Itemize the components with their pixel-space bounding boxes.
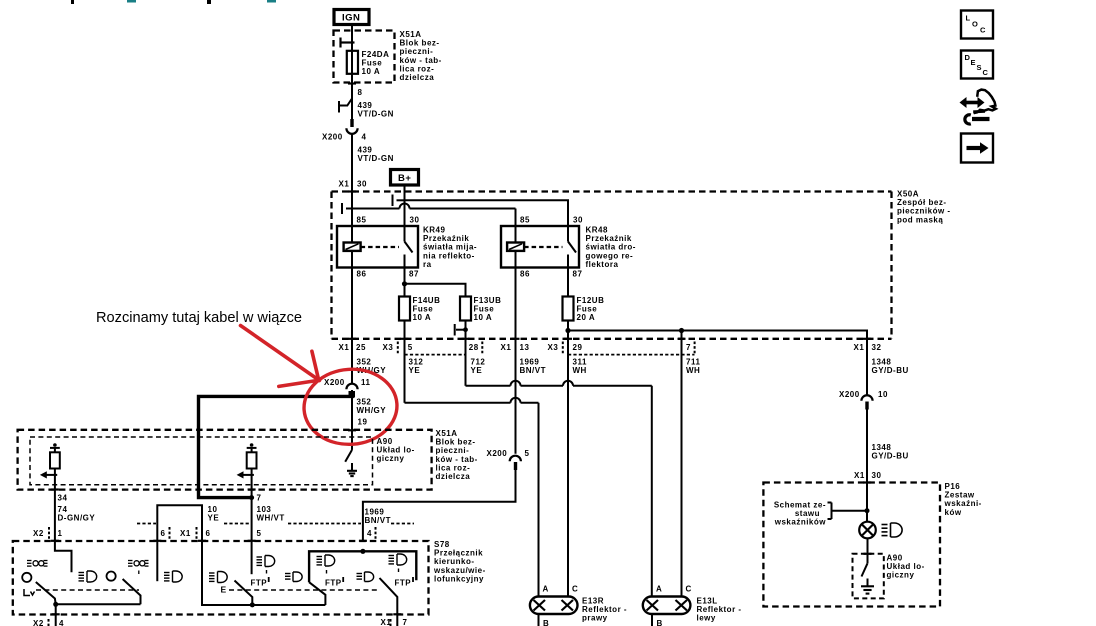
svg-text:O: O bbox=[972, 20, 978, 29]
svg-text:A: A bbox=[656, 585, 662, 594]
wire from F12UB down and right to pin 32 bbox=[567, 321, 569, 331]
svg-text:GY/D-BU: GY/D-BU bbox=[872, 452, 909, 461]
top edge cropped text fragments bbox=[71, 0, 276, 4]
splice hook on coil feed wire bbox=[342, 203, 352, 214]
off-position circle 1 bbox=[22, 573, 31, 582]
svg-text:87: 87 bbox=[573, 270, 583, 279]
arrow stub on fuse 1 bbox=[46, 474, 57, 476]
B+ branch wire to KR48 pin 30 bbox=[405, 200, 569, 226]
svg-text:29: 29 bbox=[573, 343, 583, 352]
headlamp icon middle bbox=[285, 572, 302, 582]
svg-text:4: 4 bbox=[59, 619, 64, 626]
svg-text:dzielcza: dzielcza bbox=[400, 73, 435, 82]
connector X200 pin 10 on wire 1348 bbox=[861, 395, 872, 401]
switch blade 1 bbox=[36, 582, 56, 604]
svg-text:YE: YE bbox=[409, 366, 421, 375]
S78 pin row dense dashed line bbox=[137, 523, 414, 525]
wire label 711 WH bbox=[686, 358, 700, 376]
svg-text:4: 4 bbox=[367, 529, 372, 538]
svg-text:86: 86 bbox=[357, 270, 367, 279]
svg-text:B: B bbox=[657, 619, 663, 626]
wire label 1348 GY/D-BU bbox=[872, 358, 909, 376]
svg-text:X3: X3 bbox=[383, 343, 394, 352]
logic module A90 inner dashed box bbox=[30, 437, 373, 485]
relay KR49 bbox=[337, 226, 418, 268]
wire 312 from F14UB down bbox=[404, 321, 406, 403]
branch to F13UB bbox=[405, 284, 466, 297]
svg-text:20 A: 20 A bbox=[577, 313, 596, 322]
off-position circle 2 bbox=[107, 572, 116, 581]
E13R label bbox=[582, 597, 627, 623]
wire from B+ down to KR49 pin 30 bbox=[404, 185, 406, 226]
svg-text:giczny: giczny bbox=[377, 454, 405, 463]
pin 34 tick and wire 74 down to S78 bbox=[51, 488, 59, 490]
svg-text:BN/VT: BN/VT bbox=[365, 516, 392, 525]
wire from lamp to A90 bbox=[867, 538, 869, 563]
switch blade 3 bbox=[235, 581, 253, 605]
S78 label bbox=[433, 540, 486, 583]
headlamp icon (E contact) bbox=[209, 572, 227, 583]
svg-text:30: 30 bbox=[573, 216, 583, 225]
high beam indicator lamp bbox=[859, 522, 876, 539]
multifunction switch S78 dashed box bbox=[13, 541, 429, 615]
svg-text:Rozcinamy tutaj kabel w wiązce: Rozcinamy tutaj kabel w wiązce bbox=[96, 310, 302, 326]
svg-text:10 A: 10 A bbox=[362, 67, 381, 76]
headlamp icon mid-right bbox=[357, 572, 374, 582]
svg-text:85: 85 bbox=[520, 216, 530, 225]
svg-text:C: C bbox=[983, 68, 989, 77]
svg-text:X2: X2 bbox=[33, 529, 44, 538]
svg-text:5: 5 bbox=[408, 343, 413, 352]
svg-text:S: S bbox=[977, 63, 983, 72]
svg-text:7: 7 bbox=[257, 494, 262, 503]
svg-text:FTP: FTP bbox=[251, 579, 268, 588]
fuse box X50A dashed outline bbox=[332, 192, 892, 339]
E13L pin B wire bbox=[651, 614, 653, 626]
relay KR48 bbox=[501, 226, 579, 268]
svg-text:C: C bbox=[572, 585, 578, 594]
switch to ground in A90 (wire 352) bbox=[345, 450, 352, 470]
svg-text:X1: X1 bbox=[854, 471, 865, 480]
bracket to cluster bbox=[828, 503, 868, 520]
svg-text:13: 13 bbox=[520, 343, 530, 352]
S78 internal: wire 74 jog to contact bbox=[55, 541, 72, 573]
wire label 311 WH bbox=[573, 358, 587, 376]
svg-text:X1: X1 bbox=[501, 343, 512, 352]
relay coil feed wire from 439 to KR48 pin 85 with hop bbox=[352, 204, 516, 227]
fuse element 2 in X51A (wire 103) bbox=[247, 448, 257, 541]
pin6 right leg down and common bar bbox=[202, 541, 325, 605]
distribution box X51A bottom dashed outline bbox=[18, 430, 432, 490]
icon next-page arrow box bbox=[961, 134, 993, 163]
A90 label (P16) bbox=[887, 554, 925, 580]
svg-text:pod maską: pod maską bbox=[897, 215, 943, 224]
common wire of left switch bbox=[56, 603, 141, 605]
wire 352 below X200 to logic module bbox=[351, 390, 353, 450]
svg-text:6: 6 bbox=[161, 529, 166, 538]
svg-text:19: 19 bbox=[358, 418, 368, 427]
headlamp icon (pin1 contact) bbox=[79, 571, 97, 582]
svg-text:X1: X1 bbox=[180, 529, 191, 538]
svg-text:X200: X200 bbox=[487, 449, 508, 458]
svg-text:wskaźników: wskaźników bbox=[774, 518, 827, 527]
pin 30 tick bbox=[348, 190, 356, 192]
svg-text:4: 4 bbox=[362, 133, 367, 142]
headlamp icon (pin6 left leg) bbox=[156, 541, 158, 581]
splice hook on B+ branch bbox=[393, 195, 405, 207]
headlamp E13R bbox=[530, 597, 578, 615]
svg-text:25: 25 bbox=[356, 343, 366, 352]
fuse F13UB bbox=[460, 297, 471, 321]
parking lamp icon 1 bbox=[27, 561, 48, 567]
svg-text:X1: X1 bbox=[339, 180, 350, 189]
instrument cluster P16 dashed box bbox=[763, 483, 940, 607]
headlamp icon in bracket right bbox=[389, 554, 407, 572]
pin ticks on S78 top edge bbox=[51, 540, 367, 542]
wire 712 route to E13L pin A with hops bbox=[466, 381, 652, 597]
KR49 label bbox=[423, 226, 477, 269]
X50A pin row dense dashed lines bbox=[405, 354, 695, 356]
svg-text:7: 7 bbox=[686, 343, 691, 352]
wire 712 from F13UB down bbox=[465, 321, 467, 386]
svg-text:E: E bbox=[971, 58, 977, 67]
svg-text:ków: ków bbox=[945, 508, 962, 517]
svg-text:lofunkcyjny: lofunkcyjny bbox=[434, 574, 484, 583]
svg-text:YE: YE bbox=[471, 366, 483, 375]
red ellipse bbox=[301, 366, 399, 447]
wire label 1969 BN/VT bbox=[520, 358, 547, 376]
icon diagnosis tool bbox=[960, 90, 996, 124]
connector X200 pin 4 bbox=[346, 128, 357, 134]
B+ box bbox=[391, 170, 419, 186]
svg-text:L: L bbox=[966, 14, 971, 23]
splice hook below F13UB bbox=[455, 324, 466, 336]
svg-text:30: 30 bbox=[872, 471, 882, 480]
svg-text:85: 85 bbox=[357, 216, 367, 225]
svg-text:C: C bbox=[686, 585, 692, 594]
svg-text:10 A: 10 A bbox=[474, 313, 493, 322]
wire label 312 YE bbox=[409, 358, 424, 376]
switch blade 4 bbox=[309, 582, 325, 605]
pin box dashed verticals bbox=[398, 342, 695, 354]
fuse clip symbol inside X51A bbox=[341, 38, 355, 48]
svg-text:prawy: prawy bbox=[582, 614, 608, 623]
pin 8 tick and label bbox=[348, 82, 356, 84]
wire 1969 route: X200 pin 5 and jog to S78 pin 4 bbox=[510, 456, 521, 462]
svg-text:32: 32 bbox=[872, 343, 882, 352]
high beam icon next to lamp bbox=[882, 523, 903, 537]
X51A block label (top) bbox=[400, 30, 442, 82]
svg-text:87: 87 bbox=[409, 270, 419, 279]
svg-text:B: B bbox=[543, 619, 549, 626]
svg-text:X2: X2 bbox=[33, 619, 44, 626]
svg-text:FTP: FTP bbox=[325, 579, 342, 588]
switch and ground in A90 (P16) bbox=[862, 563, 868, 586]
logic module A90 dashed box (P16) bbox=[853, 554, 884, 599]
svg-text:WH: WH bbox=[686, 366, 700, 375]
svg-text:6: 6 bbox=[206, 529, 211, 538]
X50A label bbox=[897, 190, 951, 225]
connector X51A top dashed box bbox=[334, 31, 395, 83]
wire 439 from IGN through X51A fuse block bbox=[351, 25, 353, 119]
junction bbox=[402, 281, 407, 286]
switch blade 5 to pin X1 7 bbox=[380, 578, 398, 626]
svg-text:X200: X200 bbox=[324, 378, 345, 387]
fuse element 1 in X51A (wire 74) bbox=[50, 448, 60, 490]
svg-text:VT/D-GN: VT/D-GN bbox=[358, 154, 394, 163]
pin 7 tick and label bbox=[248, 488, 256, 490]
svg-text:dzielcza: dzielcza bbox=[436, 472, 471, 481]
P16 label bbox=[944, 482, 982, 517]
wire 439 below X200 bbox=[351, 135, 353, 227]
junction to wire 711 bbox=[679, 328, 684, 333]
IGN box bbox=[334, 10, 369, 25]
icon DESC box bbox=[961, 51, 993, 79]
svg-text:34: 34 bbox=[58, 494, 68, 503]
svg-text:28: 28 bbox=[469, 343, 479, 352]
KR48 label bbox=[586, 226, 636, 269]
junction thick wire with 103 bbox=[249, 495, 254, 500]
lever mark bbox=[24, 589, 35, 596]
headlamp icon above FTP 1 bbox=[257, 556, 275, 574]
wire 711 down through pin 7 bbox=[681, 331, 683, 597]
svg-text:A: A bbox=[543, 585, 549, 594]
wire 103 end inside S78 bbox=[251, 541, 253, 574]
splice hook on wire 439 bbox=[339, 99, 352, 113]
wire 311 down through pin 29 bbox=[567, 331, 569, 597]
svg-text:YE: YE bbox=[208, 514, 220, 523]
cluster schematic reference text bbox=[774, 501, 827, 527]
svg-text:X1: X1 bbox=[339, 343, 350, 352]
svg-text:10 A: 10 A bbox=[413, 313, 432, 322]
svg-text:X200: X200 bbox=[839, 390, 860, 399]
E13L label bbox=[697, 597, 742, 623]
wire KR49 87 to fuse F14UB bbox=[404, 268, 406, 297]
svg-text:C: C bbox=[980, 26, 986, 35]
E13R pin B wire bbox=[538, 614, 540, 626]
svg-text:FTP: FTP bbox=[395, 579, 412, 588]
svg-text:ra: ra bbox=[423, 260, 432, 269]
wire KR49 86 down to pin 25 bbox=[351, 268, 353, 384]
svg-text:D-GN/GY: D-GN/GY bbox=[58, 514, 96, 523]
svg-text:86: 86 bbox=[520, 270, 530, 279]
svg-text:5: 5 bbox=[257, 529, 262, 538]
svg-text:IGN: IGN bbox=[342, 13, 360, 24]
svg-text:VT/D-GN: VT/D-GN bbox=[358, 110, 394, 119]
svg-text:giczny: giczny bbox=[887, 571, 915, 580]
svg-text:WH/VT: WH/VT bbox=[257, 514, 285, 523]
fuse F24DA bbox=[347, 51, 358, 74]
svg-text:5: 5 bbox=[525, 449, 530, 458]
wire label 712 YE bbox=[471, 358, 486, 376]
svg-text:WH: WH bbox=[573, 366, 587, 375]
icon LOC box bbox=[961, 11, 993, 39]
P16 pin 30 tick bbox=[863, 481, 871, 483]
svg-text:30: 30 bbox=[357, 180, 367, 189]
svg-text:X1: X1 bbox=[854, 343, 865, 352]
svg-text:WH/GY: WH/GY bbox=[357, 406, 387, 415]
arrow stub on fuse 2 bbox=[243, 474, 254, 476]
gang dashed link left bbox=[36, 589, 139, 591]
svg-text:10: 10 bbox=[878, 390, 888, 399]
svg-text:BN/VT: BN/VT bbox=[520, 366, 547, 375]
svg-text:B+: B+ bbox=[398, 173, 411, 184]
svg-text:30: 30 bbox=[410, 216, 420, 225]
fuse F12UB bbox=[563, 297, 574, 321]
wire 10 YE bridge between S78 pins 6 and 6 bbox=[157, 505, 202, 540]
ground symbol A90 bbox=[347, 471, 357, 476]
wire to pin X2 4 bbox=[55, 604, 57, 626]
modification wire (thick) from X200-11 to wire 103 bbox=[199, 392, 353, 498]
svg-text:GY/D-BU: GY/D-BU bbox=[872, 366, 909, 375]
headlamp icon in bracket left bbox=[317, 555, 335, 574]
wire 1348 below X200 to P16 bbox=[866, 408, 868, 522]
svg-text:7: 7 bbox=[403, 618, 408, 626]
svg-text:lewy: lewy bbox=[697, 614, 716, 623]
X51A label (bottom) bbox=[436, 429, 478, 481]
parking lamp icon 2 bbox=[128, 561, 149, 575]
svg-text:8: 8 bbox=[358, 88, 363, 97]
svg-text:flektora: flektora bbox=[586, 260, 619, 269]
svg-text:1: 1 bbox=[58, 529, 63, 538]
svg-text:11: 11 bbox=[361, 378, 371, 387]
fuse F14UB bbox=[399, 297, 410, 321]
connector X200 pin 11 on wire 352 bbox=[346, 384, 357, 390]
headlamp E13L bbox=[643, 597, 691, 615]
svg-text:X3: X3 bbox=[548, 343, 559, 352]
svg-text:E: E bbox=[221, 585, 227, 595]
high beam switch solid bracket bbox=[309, 551, 416, 582]
red arrow bbox=[241, 326, 320, 387]
S78 pin box dashed verticals bbox=[49, 527, 376, 539]
switch blade 2 bbox=[123, 579, 141, 604]
wire KR48 86 down to pin 13 bbox=[515, 268, 517, 454]
wire label 352 WH/GY bbox=[357, 358, 387, 376]
svg-text:X200: X200 bbox=[322, 133, 343, 142]
wire 312 route to E13R pin A with hop bbox=[405, 398, 539, 597]
pin ticks on X50A bottom edge bbox=[348, 338, 871, 340]
wire KR48 87 to fuse F12UB bbox=[567, 268, 569, 297]
